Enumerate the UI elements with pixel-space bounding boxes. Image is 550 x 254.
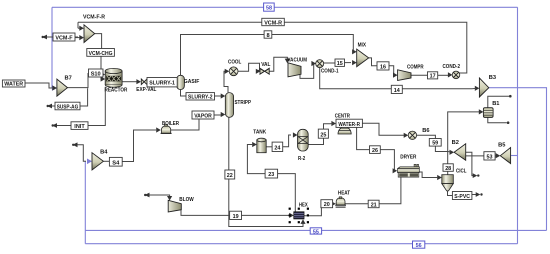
svg-text:26: 26	[372, 148, 378, 154]
label VAPOR	[192, 111, 214, 119]
svg-text:56: 56	[416, 243, 422, 249]
wire 16: MIX to COMPR	[369, 58, 377, 66]
svg-text:CICL: CICL	[456, 168, 467, 174]
heatx HEX (selected)	[289, 208, 309, 224]
svg-text:VCM-R: VCM-R	[264, 20, 282, 26]
wire 59: B6 to B2	[416, 135, 435, 138]
column STRIPP	[225, 93, 233, 118]
wire VACUUM to COND-1	[300, 64, 314, 79]
reactor R-2	[298, 129, 309, 151]
heater HEAT	[335, 197, 346, 207]
label WATER-R	[336, 119, 362, 128]
compressor VACUUM	[288, 63, 301, 77]
wire reactor out to EXP-VAL	[122, 81, 137, 83]
label SLURRY-1	[147, 78, 177, 87]
svg-text:17: 17	[430, 74, 436, 80]
svg-text:MIX: MIX	[358, 42, 367, 48]
svg-text:20: 20	[324, 202, 330, 208]
centrifuge CENTR	[338, 127, 351, 134]
mixer B7	[57, 79, 68, 96]
splitter B5	[500, 148, 510, 164]
label 15	[335, 59, 345, 67]
svg-text:STRIPP: STRIPP	[235, 100, 252, 106]
label SUSP-AG	[55, 102, 80, 110]
svg-text:BOILER: BOILER	[162, 121, 179, 127]
compressor COMPR	[398, 70, 411, 81]
svg-text:21: 21	[371, 202, 377, 208]
dryer DRYER	[398, 164, 420, 177]
label INIT	[71, 122, 88, 130]
wire STRIPP top to COOL	[224, 71, 228, 92]
tank TANK	[257, 138, 266, 153]
wire S10: B7 to reactor	[68, 73, 89, 88]
svg-text:VACUUM: VACUUM	[288, 57, 308, 63]
svg-text:REACTOR: REACTOR	[105, 88, 128, 94]
label 26	[370, 146, 381, 154]
stream 58 left drop to B7	[51, 7, 53, 88]
svg-text:WATER-R: WATER-R	[338, 122, 360, 128]
svg-text:14: 14	[394, 88, 401, 94]
label 28	[443, 164, 453, 172]
wire 14: COND-1 to B3	[320, 68, 392, 89]
label VCM-F	[53, 33, 75, 41]
label 55	[310, 228, 321, 236]
svg-text:16: 16	[380, 65, 386, 71]
heater COND-2	[452, 71, 460, 79]
svg-text:B3: B3	[489, 75, 496, 81]
wire 17: COMPR to COND-2	[411, 74, 428, 76]
svg-text:COND-1: COND-1	[321, 68, 339, 74]
wire 25: R-2 to CENTR	[308, 138, 323, 144]
svg-text:VCM-CHG: VCM-CHG	[89, 51, 114, 57]
wire 28: CICL to B1	[447, 171, 449, 174]
wire 21: HEAT to DRYER	[345, 203, 368, 205]
svg-text:53: 53	[487, 154, 493, 160]
wire VCM-CHG: mixer to reactor	[95, 34, 102, 49]
wire 26: CENTR to DRYER	[357, 127, 370, 149]
svg-text:R-2: R-2	[298, 156, 305, 162]
valve VAL	[260, 68, 270, 75]
label 8	[264, 31, 272, 39]
blue arrow into B4	[87, 159, 92, 165]
svg-text:B7: B7	[65, 76, 72, 82]
stream 55 from B3: right leg	[489, 88, 547, 231]
wire VCM-F feed	[44, 36, 78, 38]
svg-text:24: 24	[274, 145, 281, 151]
svg-text:SLURRY-1: SLURRY-1	[149, 81, 175, 87]
wire SLURRY-1 to GASIF (box abuts vessel)	[146, 81, 149, 83]
svg-text:B4: B4	[100, 149, 108, 155]
wire WATER-R to B6	[362, 123, 404, 135]
stream 56 bottom line	[85, 243, 517, 245]
label S-PVC	[452, 192, 472, 200]
stream 55 bottom line	[85, 229, 546, 231]
label 14	[391, 85, 402, 94]
svg-text:22: 22	[227, 173, 233, 179]
label S10	[89, 69, 104, 77]
mixer VCM feed mixer	[84, 25, 95, 43]
compressor BLOW	[168, 200, 181, 212]
wire 15: COND-1 to MIX	[324, 62, 336, 64]
wire B1 top stub	[488, 96, 509, 108]
svg-text:58: 58	[266, 6, 272, 12]
svg-text:23: 23	[268, 172, 274, 178]
wire INIT feed	[54, 87, 105, 126]
svg-text:SLURRY-2: SLURRY-2	[188, 95, 213, 101]
valve EXP-VAL	[141, 79, 147, 85]
stream 58 right riser / stream 56 shared vertical	[517, 7, 519, 243]
svg-text:GASIF: GASIF	[184, 79, 200, 85]
flash GASIF	[177, 75, 185, 89]
wire SLURRY-2: GASIF bottom to STRIPP	[181, 90, 187, 97]
wire VCM-R recycle top	[78, 22, 467, 73]
svg-text:VCM-F: VCM-F	[55, 35, 73, 41]
svg-text:15: 15	[337, 61, 343, 67]
label WATER	[2, 80, 25, 88]
svg-text:25: 25	[320, 132, 326, 138]
svg-text:CENTR: CENTR	[335, 114, 350, 120]
svg-text:COMPR: COMPR	[407, 65, 424, 71]
wire B4 feed stub	[75, 145, 87, 162]
shared left riser up to B4	[84, 161, 86, 244]
label 16	[377, 62, 389, 71]
mixer MIX	[357, 49, 369, 67]
wire DRYER to CICL	[419, 172, 436, 178]
wire 19: BLOW to HEX	[181, 208, 230, 216]
label 17	[428, 72, 438, 80]
mixer B3	[479, 78, 488, 97]
heater BOILER	[161, 125, 172, 134]
label 24	[272, 142, 283, 151]
label S4	[109, 157, 122, 166]
label 53	[484, 152, 495, 161]
wire 20: HEX to HEAT	[304, 208, 321, 216]
svg-text:B5: B5	[498, 143, 505, 149]
svg-text:COOL: COOL	[228, 59, 242, 65]
wire SUSP-AG feed	[49, 88, 88, 106]
label 20	[321, 200, 333, 209]
label SLURRY-2	[186, 93, 215, 101]
svg-text:55: 55	[313, 229, 319, 235]
stream 58 top line	[52, 6, 518, 8]
wire BOILER to VAPOR to STRIPP	[171, 119, 199, 130]
wire 23: HEX top to TANK	[278, 174, 296, 212]
label VCM-CHG	[87, 49, 115, 57]
svg-text:DRYER: DRYER	[400, 154, 416, 160]
blue arrow into B7	[52, 85, 57, 91]
reactor REACTOR	[105, 68, 122, 87]
wire S4: B4 to BOILER	[103, 160, 109, 162]
splitter B2	[454, 144, 466, 161]
label 22	[225, 170, 235, 179]
svg-text:TANK: TANK	[253, 129, 267, 135]
wire B2 spare outlet stub	[466, 152, 475, 175]
wire VAL to VACUUM	[269, 57, 287, 71]
wire BLOW feed stub	[147, 195, 170, 197]
svg-text:WATER: WATER	[4, 82, 23, 88]
svg-text:HEAT: HEAT	[338, 190, 351, 196]
svg-text:19: 19	[233, 214, 239, 220]
label 59	[429, 139, 441, 147]
svg-text:SUSP-AG: SUSP-AG	[57, 104, 79, 110]
wire B1 bottom stub	[488, 117, 507, 122]
svg-text:INIT: INIT	[74, 124, 85, 130]
wire CICL to S-PVC product	[448, 191, 453, 196]
label VCM-R	[262, 18, 285, 26]
svg-text:HEX: HEX	[299, 202, 308, 208]
wire 53: B2 to B5	[466, 155, 484, 157]
wire 8: GASIF top to MIX	[181, 35, 354, 76]
wire STRIPP bottoms to HEX	[229, 117, 303, 226]
svg-text:S-PVC: S-PVC	[454, 194, 470, 200]
svg-text:B1: B1	[492, 101, 499, 107]
svg-text:B2: B2	[452, 140, 459, 146]
svg-text:BLOW: BLOW	[179, 197, 194, 203]
label 23	[265, 169, 278, 178]
svg-text:EXP-VAL: EXP-VAL	[136, 87, 157, 93]
wire COOL to VAL	[238, 63, 260, 71]
svg-text:8: 8	[267, 33, 270, 39]
svg-text:VAL: VAL	[261, 62, 271, 68]
label 56	[413, 241, 425, 249]
B5 outlet stub to riser	[511, 155, 518, 157]
label 25	[318, 129, 328, 138]
svg-text:B6: B6	[422, 128, 429, 134]
label 19	[230, 211, 242, 220]
svg-text:VAPOR: VAPOR	[194, 113, 212, 119]
svg-text:S10: S10	[91, 71, 101, 77]
svg-text:28: 28	[445, 166, 451, 172]
wire 24: TANK to R-2	[266, 146, 272, 148]
cyclone CICL	[442, 175, 454, 191]
label 21	[368, 200, 379, 208]
wire WATER feed	[25, 83, 52, 88]
flash B1	[483, 108, 493, 118]
svg-text:59: 59	[432, 141, 438, 147]
heater COOL	[229, 67, 238, 76]
pump B6	[408, 131, 416, 139]
svg-text:COND-2: COND-2	[443, 64, 461, 70]
label 58	[264, 3, 275, 12]
svg-text:VCM-F-R: VCM-F-R	[83, 15, 105, 21]
svg-text:S4: S4	[112, 160, 120, 166]
mixer B4	[92, 153, 103, 170]
heater COND-1	[316, 60, 324, 68]
